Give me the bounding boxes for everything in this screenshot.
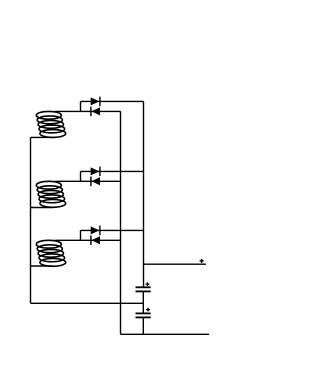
- wire phase3 bottom diode line: [55, 239, 121, 241]
- diode D4 (phase 2 lower): [91, 177, 100, 187]
- wire coil3 bottom to neutral: [31, 265, 54, 267]
- inductor L1 (phase 1 coil): [36, 111, 65, 137]
- diode D5 (phase 3 upper): [91, 226, 100, 236]
- wire phase1 bottom diode line: [55, 110, 121, 112]
- wire right positive rail: [143, 101, 145, 287]
- capacitor C1 polarity plus: [146, 282, 150, 286]
- wire phase1 top diode line: [81, 100, 144, 102]
- wire left neutral rail: [30, 137, 32, 303]
- node positive output plus mark: [200, 259, 204, 263]
- wire phase1 jog: [80, 101, 82, 111]
- capacitor C1: [136, 287, 151, 291]
- diode D1 (phase 1 upper, to + rail): [91, 97, 100, 107]
- wire phase2 bottom diode line: [55, 180, 121, 182]
- capacitor C2: [136, 313, 151, 317]
- inductor L3 (phase 3 coil): [36, 240, 65, 266]
- wire capacitor C2 bottom lead: [142, 317, 144, 334]
- wire coil1 bottom to neutral: [31, 136, 54, 138]
- wire phase2 jog: [80, 171, 82, 181]
- diode D6 (phase 3 lower): [91, 236, 100, 246]
- diode D2 (phase 1 lower, from - rail): [91, 107, 100, 117]
- inductor L2 (phase 2 coil): [36, 181, 65, 207]
- capacitor C2 polarity plus: [146, 308, 150, 312]
- diode D3 (phase 2 upper): [91, 167, 100, 177]
- wire coil2 bottom to neutral: [31, 207, 54, 209]
- wire neutral horizontal: [31, 302, 144, 304]
- wire negative output: [121, 333, 210, 335]
- wire positive output: [144, 263, 207, 265]
- wire capacitor mid vertical: [142, 291, 144, 313]
- wire phase3 top diode line: [81, 229, 144, 231]
- wire phase3 jog: [80, 230, 82, 240]
- wire phase2 top diode line: [81, 170, 144, 172]
- wire mid rail: [120, 111, 122, 334]
